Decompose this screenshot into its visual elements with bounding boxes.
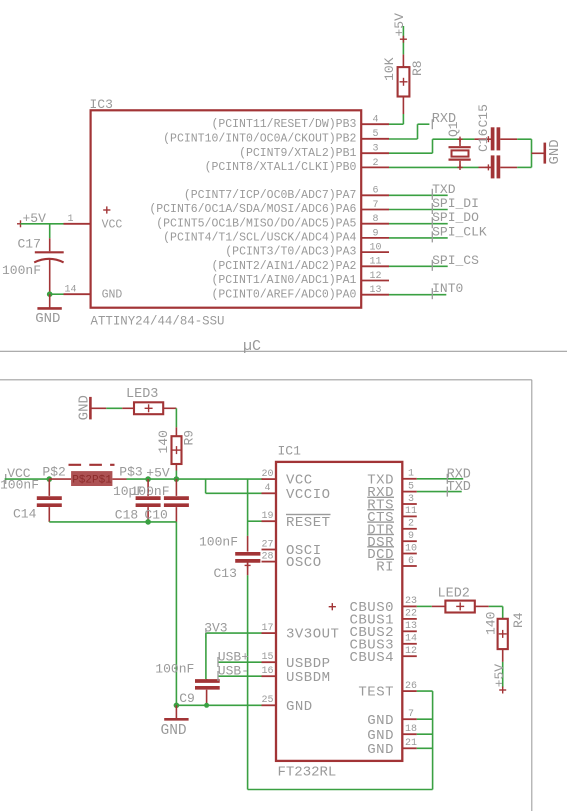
- label P$3: [119, 465, 142, 480]
- R9 value 140: [156, 430, 171, 453]
- IC3 pin 3 (PB1) stub: [361, 152, 389, 154]
- svg-text:100nF: 100nF: [131, 484, 170, 499]
- ground symbol below C17: [37, 294, 61, 308]
- svg-text:VCC: VCC: [102, 218, 123, 231]
- IC3 pin 11 (PA2) stub: [361, 265, 389, 267]
- wire LED2 to R4: [489, 606, 503, 618]
- svg-text:P$3: P$3: [119, 465, 142, 480]
- IC3 pin 14 number: [64, 285, 76, 296]
- IC1 name label: [278, 443, 302, 458]
- wire pin2 to crystal bottom / C15: [389, 166, 479, 168]
- net label SPI_DI: [432, 196, 479, 214]
- IC1 pin label RXD: [367, 485, 394, 501]
- svg-text:GND: GND: [367, 742, 394, 758]
- GND label: [161, 723, 187, 739]
- IC1 pin 16 (USBDM) stub: [262, 675, 277, 677]
- capacitor C14: [37, 479, 62, 522]
- IC1 pin 11 number: [405, 506, 417, 517]
- wire pin 18 GND: [417, 733, 433, 735]
- svg-text:15: 15: [261, 652, 273, 663]
- ferrite bead L2 dashed outline: [69, 464, 115, 466]
- IC3 pin 10 number: [369, 243, 381, 254]
- resistor R4: [498, 619, 508, 662]
- IC3 pin 5 number: [372, 129, 378, 140]
- svg-text:GND: GND: [367, 713, 394, 729]
- svg-text:R4: R4: [511, 612, 526, 628]
- IC1 pin label CBUS3: [349, 637, 394, 653]
- C17 name label: [18, 237, 41, 252]
- wire pin 1 to RXD: [417, 478, 463, 480]
- R8 top lead: [402, 54, 404, 67]
- svg-text:11: 11: [369, 257, 381, 268]
- IC3 pin 6 number: [372, 186, 378, 197]
- svg-text:ATTINY24/44/84-SSU: ATTINY24/44/84-SSU: [91, 314, 225, 329]
- svg-text:VCCIO: VCCIO: [286, 487, 331, 503]
- IC1 pin label 3V3OUT: [286, 627, 339, 643]
- IC3 pin 11 number: [369, 257, 381, 268]
- svg-text:3V3OUT: 3V3OUT: [286, 627, 339, 643]
- IC3 pin 2 number: [372, 158, 378, 169]
- wire 3V3OUT: [206, 632, 262, 634]
- ground symbol at LED3: [90, 397, 106, 420]
- resistor R9: [172, 427, 182, 470]
- IC3 pin label PA2: [211, 260, 356, 273]
- LED3 name label: [126, 387, 158, 402]
- svg-text:10: 10: [369, 243, 381, 254]
- svg-text:µC: µC: [243, 338, 261, 355]
- net label VCC: [6, 466, 31, 484]
- IC1 pin 16 number: [261, 666, 273, 677]
- R8 bottom lead: [402, 97, 404, 115]
- IC1 pin label DTR: [367, 522, 394, 538]
- node junction pin14/C17/GND: [47, 291, 53, 297]
- IC1 pin label CBUS4: [349, 650, 394, 666]
- IC1 pin 1 number: [408, 469, 414, 480]
- svg-text:140: 140: [156, 430, 171, 453]
- svg-text:(PCINT6/OC1A/SDA/MOSI/ADC6)PA6: (PCINT6/OC1A/SDA/MOSI/ADC6)PA6: [149, 203, 356, 216]
- IC3 pin 7 (PA6) stub: [361, 209, 389, 211]
- sheet separator line: [0, 350, 567, 352]
- svg-text:R8: R8: [410, 60, 425, 76]
- IC1 pin label VCCIO: [286, 487, 331, 503]
- svg-text:(PCINT5/OC1B/MISO/DO/ADC5)PA5: (PCINT5/OC1B/MISO/DO/ADC5)PA5: [156, 217, 356, 230]
- IC3 pin label PA6: [149, 203, 356, 216]
- lower sheet frame: [0, 380, 532, 811]
- svg-text:5: 5: [408, 481, 414, 492]
- IC3 pin 4 number: [372, 115, 378, 126]
- svg-text:GND: GND: [161, 723, 187, 739]
- svg-text:100nF: 100nF: [155, 661, 194, 676]
- svg-text:3: 3: [408, 494, 414, 505]
- capacitor C9: [195, 679, 220, 705]
- svg-text:22: 22: [405, 609, 417, 620]
- svg-text:(PCINT11/RESET/DW)PB3: (PCINT11/RESET/DW)PB3: [211, 118, 356, 131]
- net label 3V3: [204, 621, 227, 638]
- IC1 pin 28 (OSCO) stub: [262, 561, 277, 563]
- IC1 pin 20 number: [261, 469, 273, 480]
- IC3 pin 1 (VCC) stub: [64, 223, 91, 225]
- IC3 pin 2 (PB0) stub: [361, 166, 389, 168]
- IC1 pin 12 (CBUS4) stub: [402, 655, 417, 657]
- IC3 pin 1 number: [67, 214, 73, 225]
- svg-text:10K: 10K: [382, 57, 397, 81]
- svg-text:21: 21: [405, 738, 417, 749]
- IC1 pin 3 number: [408, 494, 414, 505]
- IC3 name label: [90, 97, 113, 112]
- svg-text:GND: GND: [102, 289, 123, 302]
- svg-text:C15: C15: [476, 104, 491, 127]
- sheet title uC: [243, 338, 261, 355]
- IC1 pin label VCC: [286, 473, 313, 489]
- IC1 pin 2 number: [408, 519, 414, 530]
- IC1 pin 19 (RESET) stub: [262, 520, 277, 522]
- wire pin to net SPI_DO: [389, 223, 448, 225]
- IC1 pin 25 number: [261, 695, 273, 706]
- IC1 pin 25 (GND) stub: [262, 704, 277, 706]
- label P$2: [42, 465, 65, 480]
- ground symbol right of C16/C15: [532, 143, 545, 164]
- C13 name: [214, 566, 237, 581]
- IC1 origin cross: [329, 603, 336, 610]
- IC1 pin label TEST: [358, 685, 394, 701]
- svg-text:18: 18: [405, 724, 417, 735]
- IC3 pin 7 number: [372, 200, 378, 211]
- IC1 pin 17 (3V3OUT) stub: [262, 632, 277, 634]
- C9 value 100nF: [155, 661, 194, 676]
- IC1 pin label RTS: [367, 498, 394, 514]
- svg-text:C13: C13: [214, 566, 237, 581]
- IC1 pin label DSR: [367, 535, 394, 551]
- IC1 pin label GND: [286, 699, 313, 715]
- wire pin to net SPI_CLK: [389, 237, 448, 239]
- svg-text:11: 11: [405, 506, 417, 517]
- svg-text:7: 7: [408, 709, 414, 720]
- svg-text:12: 12: [405, 646, 417, 657]
- IC3 pin label PB0: [205, 161, 357, 174]
- IC1 pin 3 (RTS) stub: [402, 503, 417, 505]
- C17 value label 100nF: [2, 263, 41, 278]
- svg-text:USB+: USB+: [218, 650, 249, 665]
- svg-text:TEST: TEST: [358, 685, 394, 701]
- IC1 pin 12 number: [405, 646, 417, 657]
- IC1 pin 22 number: [405, 609, 417, 620]
- wire C16/C15 right side: [517, 139, 531, 167]
- svg-text:7: 7: [372, 200, 378, 211]
- junction C18 bottom: [145, 519, 151, 525]
- wire pin 26 TEST to GND rail: [417, 691, 433, 789]
- IC3 pin label PB3: [211, 118, 356, 131]
- wire pin 5 to TXD: [417, 491, 462, 493]
- IC1 value label FT232RL: [278, 765, 337, 781]
- IC3 pin 12 number: [369, 271, 381, 282]
- IC1 pin 14 (CBUS3) stub: [402, 643, 417, 645]
- ground symbol below junction: [164, 705, 188, 719]
- supply +5V symbol left: [17, 211, 46, 227]
- IC3 pin label PA5: [156, 217, 356, 230]
- wire pin 7 GND: [417, 718, 433, 720]
- IC1 pin label CBUS1: [349, 613, 394, 629]
- ferrite bead L2 body: [71, 471, 112, 487]
- IC3 pin 10 (PA3) stub: [361, 251, 389, 253]
- supply +5V symbol below R4: [499, 687, 506, 694]
- svg-text:13: 13: [369, 285, 381, 296]
- junction GND rail: [174, 703, 180, 709]
- svg-text:4: 4: [264, 483, 270, 494]
- svg-text:SPI_DI: SPI_DI: [432, 196, 479, 211]
- wire junction to pin 14: [50, 293, 64, 295]
- C13 value 100nF: [199, 535, 238, 550]
- wire pin5 to RXD label: [389, 124, 429, 139]
- IC3 pin 3 number: [372, 144, 378, 155]
- svg-text:USBDM: USBDM: [286, 670, 331, 686]
- svg-text:C16: C16: [476, 129, 491, 152]
- svg-text:14: 14: [64, 285, 76, 296]
- IC1 pin 17 number: [261, 623, 273, 634]
- crystal Q1: [449, 137, 471, 170]
- svg-text:(PCINT0/AREF/ADC0)PA0: (PCINT0/AREF/ADC0)PA0: [211, 288, 356, 301]
- svg-text:(PCINT7/ICP/OC0B/ADC7)PA7: (PCINT7/ICP/OC0B/ADC7)PA7: [184, 189, 357, 202]
- wire USBDM net: [218, 675, 262, 677]
- IC1 pin label DCD: [367, 547, 394, 563]
- IC3 origin cross: [103, 206, 110, 213]
- wire pin to net INT0: [389, 294, 446, 296]
- svg-text:GND: GND: [547, 139, 563, 164]
- IC1 pin label OSCO: [286, 555, 322, 571]
- IC1 pin 13 (CBUS2) stub: [402, 630, 417, 632]
- svg-text:P$2P$1: P$2P$1: [72, 475, 112, 487]
- IC3 pin 8 number: [372, 214, 378, 225]
- svg-text:16: 16: [261, 666, 273, 677]
- svg-text:10: 10: [405, 543, 417, 554]
- IC1 pin label CBUS2: [349, 625, 394, 641]
- svg-text:P$2: P$2: [42, 465, 65, 480]
- C14 value 100nF: [0, 478, 39, 493]
- net label TXD at IC1: [447, 480, 471, 497]
- IC3 pin 14 (GND) stub: [64, 293, 91, 295]
- R8 value 10K: [382, 57, 397, 81]
- wire +5V vertical to RESET and C13: [248, 479, 262, 536]
- wire bottom GND rail: [248, 789, 433, 791]
- wire USBDP net: [218, 661, 262, 663]
- IC1 pin 7 (GND) stub: [402, 718, 417, 720]
- IC3 pin 13 number: [369, 285, 381, 296]
- IC1 pin 15 (USBDP) stub: [262, 661, 277, 663]
- C10 name: [144, 508, 167, 523]
- svg-text:INT0: INT0: [432, 281, 463, 296]
- wire C13 bottom to GND rail: [247, 575, 249, 789]
- svg-text:C9: C9: [179, 691, 195, 706]
- net label TXD: [432, 182, 456, 200]
- IC3 pin label PB2: [163, 132, 356, 145]
- IC3 pin label PA0: [211, 288, 356, 301]
- IC3 pin label PB1: [239, 147, 356, 160]
- IC1 pin label GND: [367, 742, 394, 758]
- IC1 pin 27 (OSCI) stub: [262, 549, 277, 551]
- IC1 pin 4 (VCCIO) stub: [262, 492, 277, 494]
- Q1 name label: [446, 121, 461, 137]
- IC1 pin 20 (VCC) stub: [262, 478, 277, 480]
- GND label rotated: [547, 139, 563, 164]
- C9 name: [179, 691, 195, 706]
- R4 name: [511, 612, 526, 628]
- IC1 pin 6 number: [408, 556, 414, 567]
- IC3 pin 8 (PA5) stub: [361, 223, 389, 225]
- IC3 pin label PA3: [225, 246, 356, 259]
- svg-text:9: 9: [372, 228, 378, 239]
- svg-text:LED2: LED2: [438, 587, 470, 602]
- IC1 pin 4 number: [264, 483, 270, 494]
- wire VCC rail left: [5, 478, 50, 480]
- wire pin to net SPI_DI: [389, 209, 448, 211]
- IC1 pin 5 (RXD) stub: [402, 491, 417, 493]
- wire pin3 to crystal top: [389, 139, 474, 153]
- IC1 pin 22 (CBUS1) stub: [402, 618, 417, 620]
- IC3 value label ATTINY24/44/84-SSU: [91, 314, 225, 329]
- IC1 pin 27 number: [261, 539, 273, 550]
- net label RXD at IC1: [447, 467, 471, 484]
- IC1 pin label RI: [376, 560, 394, 576]
- svg-text:IC3: IC3: [90, 97, 113, 112]
- svg-text:USB-: USB-: [218, 664, 249, 679]
- IC3 GND pin label: [102, 289, 123, 302]
- svg-text:C18: C18: [115, 508, 138, 523]
- USB interface IC1 box: [276, 462, 402, 761]
- IC3 pin 9 number: [372, 228, 378, 239]
- svg-text:2: 2: [372, 158, 378, 169]
- junction C14/VCC: [47, 476, 53, 482]
- LED2: [432, 601, 489, 613]
- IC1 pin 11 (CTS) stub: [402, 515, 417, 517]
- IC1 pin 21 number: [405, 738, 417, 749]
- net label SPI_CLK: [432, 224, 487, 242]
- IC1 pin 18 number: [405, 724, 417, 735]
- label +5V at bead: [146, 466, 170, 481]
- svg-text:IC1: IC1: [278, 443, 302, 458]
- wire pin 23 to LED2: [417, 605, 432, 607]
- svg-text:13: 13: [405, 621, 417, 632]
- svg-text:100nF: 100nF: [0, 478, 39, 493]
- svg-text:SPI_CLK: SPI_CLK: [432, 224, 487, 239]
- svg-text:GND: GND: [35, 311, 60, 327]
- svg-text:23: 23: [405, 596, 417, 607]
- IC3 VCC pin label: [102, 218, 123, 231]
- IC1 pin label CBUS0: [349, 600, 394, 616]
- wire GND rail to pin 25: [176, 704, 261, 706]
- IC1 pin 23 (CBUS0) stub: [402, 605, 417, 607]
- R8 name: [410, 60, 425, 76]
- IC1 pin 26 number: [405, 681, 417, 692]
- svg-text:8: 8: [372, 214, 378, 225]
- IC3 pin label PA7: [184, 189, 357, 202]
- IC3 pin 12 (PA1) stub: [361, 280, 389, 282]
- IC1 pin 26 (TEST) stub: [402, 690, 417, 692]
- svg-text:4: 4: [372, 115, 378, 126]
- IC1 pin 13 number: [405, 621, 417, 632]
- svg-text:+5V: +5V: [492, 664, 507, 688]
- wire pin to net TXD: [389, 194, 448, 196]
- svg-text:9: 9: [408, 531, 414, 542]
- capacitor C16: [474, 127, 517, 150]
- IC3 pin 4 (PB3) stub: [361, 123, 389, 125]
- junction C9 bottom: [204, 703, 209, 708]
- wire bead to IC1 VCC: [112, 478, 262, 480]
- net label INT0: [432, 281, 463, 299]
- IC1 pin 14 number: [405, 634, 417, 645]
- LED2 name label: [438, 587, 470, 602]
- net label USB-: [218, 664, 249, 681]
- svg-text:(PCINT10/INT0/OC0A/CKOUT)PB2: (PCINT10/INT0/OC0A/CKOUT)PB2: [163, 132, 356, 145]
- IC3 pin 6 (PA7) stub: [361, 194, 389, 196]
- C15 name label: [476, 104, 491, 127]
- wire GND to LED3: [106, 407, 122, 409]
- svg-text:(PCINT4/T1/SCL/USCK/ADC4)PA4: (PCINT4/T1/SCL/USCK/ADC4)PA4: [163, 232, 356, 245]
- IC1 pin label GND: [367, 728, 394, 744]
- IC1 pin 2 (DTR) stub: [402, 528, 417, 530]
- svg-text:1: 1: [408, 469, 414, 480]
- IC1 pin 5 number: [408, 481, 414, 492]
- svg-text:14: 14: [405, 634, 417, 645]
- IC1 pin 28 number: [261, 551, 273, 562]
- wire GND rail under C14/C18/C10: [49, 521, 176, 523]
- svg-text:2: 2: [408, 519, 414, 530]
- IC1 pin label TXD: [367, 472, 394, 488]
- svg-text:3V3: 3V3: [204, 621, 227, 636]
- C10 value 100nF: [131, 484, 170, 499]
- IC1 pin label CTS: [367, 510, 394, 526]
- wire pin 21 GND: [417, 747, 433, 749]
- wire +5V down to C17: [49, 224, 51, 238]
- R9 name: [182, 430, 197, 446]
- junction C18: [145, 476, 151, 482]
- svg-text:12: 12: [369, 271, 381, 282]
- capacitor C10: [164, 479, 189, 522]
- svg-text:RESET: RESET: [286, 515, 331, 531]
- svg-text:20: 20: [261, 469, 273, 480]
- svg-text:C17: C17: [18, 237, 41, 252]
- svg-text:C14: C14: [13, 507, 37, 522]
- IC1 pin 6 (RI) stub: [402, 565, 417, 567]
- svg-text:3: 3: [372, 144, 378, 155]
- svg-text:19: 19: [261, 511, 273, 522]
- svg-text:SPI_CS: SPI_CS: [432, 253, 479, 268]
- svg-text:17: 17: [261, 623, 273, 634]
- capacitor C17: [34, 238, 64, 294]
- svg-text:(PCINT2/AIN1/ADC2)PA2: (PCINT2/AIN1/ADC2)PA2: [211, 260, 356, 273]
- wire pin to net SPI_CS: [389, 265, 448, 267]
- IC1 pin label RESET: [286, 515, 331, 531]
- wire +5V to pin 1: [21, 223, 64, 225]
- svg-text:6: 6: [372, 186, 378, 197]
- junction R9/C10: [174, 476, 180, 482]
- svg-text:Q1: Q1: [446, 121, 461, 137]
- net label SPI_DO: [432, 210, 479, 228]
- wire R4 to +5V: [502, 662, 504, 688]
- IC1 pin label GND: [367, 713, 394, 729]
- capacitor C13: [235, 536, 260, 575]
- IC1 pin 23 number: [405, 596, 417, 607]
- wire VCCIO to VCC rail: [206, 479, 262, 493]
- svg-text:TXD: TXD: [432, 182, 456, 197]
- microcontroller IC3 box: [91, 110, 362, 307]
- net label RXD: [432, 112, 456, 129]
- supply +5V symbol above R8: [400, 26, 407, 54]
- capacitor C18: [136, 479, 161, 522]
- R4 value 140: [484, 612, 499, 635]
- wire 3V3 to C9: [205, 633, 207, 679]
- C16 name label: [476, 129, 491, 152]
- GND label below C17: [35, 311, 60, 327]
- GND label rotated at LED3: [77, 395, 93, 420]
